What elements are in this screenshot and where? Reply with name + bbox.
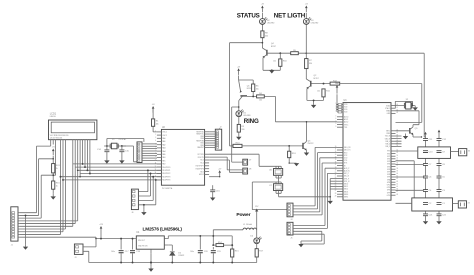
wire J3 to rails bbox=[83, 239, 96, 263]
svg-text:330: 330 bbox=[265, 35, 268, 37]
svg-text:RD6/PSP6: RD6/PSP6 bbox=[196, 168, 204, 170]
svg-text:MIC_P: MIC_P bbox=[344, 173, 349, 175]
svg-text:KBC3: KBC3 bbox=[344, 191, 348, 193]
ground below C15 bbox=[119, 160, 124, 163]
wire RV1 chain bbox=[52, 143, 54, 194]
wire J1 pin2 riser to VDD bbox=[20, 158, 54, 215]
wire Q1 emitter top bbox=[239, 76, 254, 85]
svg-text:SIM_C: SIM_C bbox=[385, 146, 391, 148]
wire long vertical net bbox=[230, 43, 263, 146]
wire U3 L-drop to box F bbox=[396, 161, 415, 198]
inductor L1 bbox=[242, 224, 257, 230]
capacitor C19 bbox=[211, 247, 222, 263]
wire box F to crystal Y3 bbox=[453, 203, 459, 205]
svg-text:NETL: NETL bbox=[386, 131, 390, 133]
wire U7 bottom rail bbox=[276, 191, 330, 197]
resistor R8 bbox=[261, 31, 269, 38]
wire J1 ground riser bbox=[25, 214, 27, 244]
svg-text:MIC_N: MIC_N bbox=[344, 176, 350, 178]
svg-text:RC5: RC5 bbox=[200, 160, 203, 162]
resistor R6 bbox=[252, 84, 260, 92]
wire regulator gnd pin bbox=[150, 253, 152, 262]
wire OSC2 link bbox=[122, 146, 137, 162]
svg-text:RING: RING bbox=[244, 118, 259, 125]
svg-text:GND FB ON: GND FB ON bbox=[138, 245, 148, 247]
capacitor C7 bbox=[423, 164, 432, 167]
svg-text:RA0: RA0 bbox=[162, 137, 165, 140]
wire Q3 emitter bbox=[306, 150, 308, 152]
power +5V above D3 bbox=[305, 4, 309, 13]
capacitor C14 bbox=[97, 146, 109, 160]
wire U3 right misc pins bbox=[396, 136, 402, 146]
wire cap column left bbox=[424, 53, 425, 221]
svg-text:KBC2: KBC2 bbox=[344, 189, 348, 191]
wire U2 pins to JP2 bbox=[209, 157, 243, 172]
svg-text:RTS: RTS bbox=[344, 163, 347, 165]
ground below C16 bbox=[210, 198, 215, 201]
svg-text:NET LIGTH: NET LIGTH bbox=[274, 13, 306, 20]
resistor R16 bbox=[52, 181, 61, 189]
power +5V above D2 bbox=[261, 4, 265, 13]
wire J2 to opto U6 rail bbox=[209, 154, 281, 168]
resistor R13 bbox=[233, 143, 242, 148]
svg-text:GND_E: GND_E bbox=[385, 138, 391, 140]
wire D5 to R5 bbox=[238, 117, 240, 125]
ground below J1 bbox=[23, 244, 28, 250]
transistor Q1 bbox=[239, 80, 252, 111]
svg-text:D8: D8 bbox=[249, 168, 251, 170]
svg-text:VVV RRE DDDDDDDD: VVV RRE DDDDDDDD bbox=[50, 135, 69, 137]
wire input rail bbox=[95, 238, 131, 240]
svg-text:SPK_P: SPK_P bbox=[344, 178, 349, 180]
ground below R18 bbox=[294, 163, 299, 166]
svg-text:BC557: BC557 bbox=[271, 46, 276, 48]
GSM module U3 body bbox=[335, 103, 398, 201]
ground below C14 bbox=[104, 160, 109, 163]
capacitor C13 bbox=[423, 151, 433, 154]
svg-text:J4: J4 bbox=[290, 219, 292, 221]
svg-text:RA2: RA2 bbox=[162, 143, 165, 146]
power +5V to U2 pin1 bbox=[152, 104, 156, 119]
capacitor C6 bbox=[423, 176, 432, 179]
crystal Y2 bbox=[459, 149, 470, 156]
wire Q1 base to R4 bbox=[247, 92, 257, 98]
diode D6 bbox=[170, 252, 184, 263]
capacitor C4 bbox=[423, 190, 432, 193]
svg-text:BC557: BC557 bbox=[314, 78, 319, 80]
wire LCD VEE column bbox=[55, 143, 57, 176]
regulator U4 label bbox=[136, 226, 182, 233]
connector J4 body bbox=[287, 203, 293, 221]
resistor R5 bbox=[237, 124, 245, 132]
wire U2 to J2 bbox=[209, 132, 215, 148]
resistor R11 bbox=[317, 89, 330, 97]
wire U3 to row C bbox=[396, 163, 425, 165]
svg-text:KBC0: KBC0 bbox=[344, 184, 348, 186]
svg-text:10k: 10k bbox=[273, 61, 276, 63]
svg-text:13: 13 bbox=[155, 169, 157, 171]
capacitor C18 bbox=[130, 251, 141, 263]
svg-text:KBR1: KBR1 bbox=[344, 197, 348, 199]
resistor R18 bbox=[288, 151, 297, 158]
option jumper box JP2 bbox=[243, 168, 252, 174]
svg-text:LED-RED: LED-RED bbox=[267, 23, 275, 25]
svg-text:LM016L: LM016L bbox=[50, 116, 56, 118]
svg-text:OSC1: OSC1 bbox=[162, 132, 167, 134]
svg-text:1k: 1k bbox=[56, 168, 58, 170]
resistor R4 bbox=[257, 93, 265, 101]
wire R15 to rail bbox=[231, 257, 233, 263]
wire regulator output bbox=[168, 236, 232, 251]
wire LCD data columns bbox=[82, 143, 91, 175]
svg-text:RB0/INT: RB0/INT bbox=[197, 147, 203, 149]
wire D2 chain bbox=[262, 13, 264, 48]
svg-text:RD2/PSP2: RD2/PSP2 bbox=[162, 173, 170, 175]
svg-text:2N2222: 2N2222 bbox=[308, 143, 314, 145]
power +5V above RV1 bbox=[52, 147, 56, 156]
capacitor C1 bbox=[437, 203, 446, 206]
svg-text:SPK_N: SPK_N bbox=[344, 181, 350, 183]
crystal X2 bbox=[110, 138, 126, 149]
svg-text:GPE: GPE bbox=[387, 190, 390, 192]
svg-text:GPF: GPF bbox=[387, 192, 390, 194]
wire R13 to Q3 base bbox=[242, 145, 303, 147]
svg-text:J1: J1 bbox=[11, 245, 13, 247]
svg-text:RC6/TX: RC6/TX bbox=[198, 157, 205, 159]
svg-text:330: 330 bbox=[241, 129, 244, 131]
svg-text:100u: 100u bbox=[190, 251, 194, 253]
LED D5 bbox=[236, 110, 252, 117]
LCD pin stubs bbox=[51, 140, 90, 143]
ground below rail bbox=[148, 262, 153, 272]
svg-text:LED-RED: LED-RED bbox=[243, 115, 251, 117]
ground below left column bbox=[423, 221, 428, 224]
ground left of J5 runs bbox=[298, 244, 303, 247]
ground below R16 bbox=[51, 194, 56, 200]
svg-text:RA5: RA5 bbox=[162, 153, 165, 156]
wire VEE tap bbox=[52, 174, 55, 176]
resistor R17 bbox=[255, 249, 264, 257]
svg-text:GP9: GP9 bbox=[387, 177, 390, 179]
svg-text:GP7: GP7 bbox=[387, 172, 390, 174]
wire cap column right bbox=[438, 132, 440, 221]
RING label bbox=[244, 118, 259, 125]
resistor R15 bbox=[231, 249, 240, 257]
wire input cap drops bbox=[120, 238, 133, 250]
svg-text:RD3/PSP3: RD3/PSP3 bbox=[162, 176, 170, 178]
wire U3 to row D bbox=[396, 176, 425, 178]
svg-text:L1 100uH: L1 100uH bbox=[243, 224, 253, 226]
resistor R19 bbox=[152, 119, 160, 126]
svg-text:D7: D7 bbox=[249, 159, 251, 161]
capacitor C8 bbox=[437, 164, 446, 167]
svg-text:10k: 10k bbox=[156, 123, 159, 125]
svg-text:DBG_TX: DBG_TX bbox=[344, 150, 351, 152]
svg-text:GP1: GP1 bbox=[387, 156, 390, 158]
svg-text:MCLR: MCLR bbox=[199, 174, 205, 176]
LED D3 bbox=[303, 17, 319, 24]
connector J1 body bbox=[11, 207, 20, 247]
wire J5 runs bbox=[293, 168, 337, 244]
svg-text:GP8: GP8 bbox=[387, 174, 390, 176]
wire U2 pin to power arrow bbox=[209, 168, 222, 177]
wire R18 drop bbox=[289, 146, 297, 164]
LED D4 bbox=[250, 230, 261, 249]
svg-text:100u: 100u bbox=[111, 251, 115, 253]
opto-isolator U7 body bbox=[269, 184, 283, 191]
wire box B to crystal Y2 bbox=[451, 151, 459, 153]
ground below J6 bbox=[141, 210, 146, 216]
svg-text:GPB: GPB bbox=[387, 182, 390, 184]
wire U3 to row B bbox=[396, 150, 418, 152]
svg-text:RE1: RE1 bbox=[162, 160, 165, 162]
svg-text:15: 15 bbox=[155, 175, 157, 177]
resistor R12 bbox=[330, 80, 340, 85]
transistor Q3 bbox=[303, 140, 313, 150]
svg-text:GP3: GP3 bbox=[387, 161, 390, 163]
svg-text:J5: J5 bbox=[290, 238, 292, 240]
capacitor C20 bbox=[190, 251, 208, 263]
wire U3 to row F bbox=[396, 202, 412, 204]
ground below Q3 bbox=[304, 153, 309, 156]
wire U3 ground ladder bbox=[329, 179, 337, 201]
svg-text:10: 10 bbox=[155, 159, 157, 161]
svg-text:DBG_RX: DBG_RX bbox=[344, 147, 351, 149]
regulator U4 body bbox=[131, 236, 168, 253]
wire J6 ground stub bbox=[138, 204, 144, 210]
capacitor C16 bbox=[210, 190, 220, 198]
wire J1 pin3 riser to VEE bbox=[20, 175, 54, 218]
microcontroller U2 label bbox=[162, 127, 173, 190]
crystal X1 bbox=[404, 99, 412, 109]
power VBAT to U3 pins bbox=[335, 82, 342, 113]
capacitor C11 bbox=[423, 139, 433, 142]
svg-text:RC4: RC4 bbox=[200, 163, 203, 165]
ground right of X1 bbox=[413, 107, 418, 110]
svg-text:Power: Power bbox=[236, 212, 250, 218]
power +5V above Q1 bbox=[237, 66, 241, 75]
svg-text:RD1/PSP1: RD1/PSP1 bbox=[162, 170, 170, 172]
power input arrow bbox=[255, 206, 259, 226]
wire row F box bbox=[412, 198, 453, 211]
connector J2 body bbox=[215, 127, 221, 150]
ground below Q4 bbox=[269, 70, 274, 73]
capacitor C9 bbox=[437, 151, 446, 154]
connector J3 body bbox=[74, 244, 83, 259]
wire bus to U2 bbox=[61, 164, 162, 180]
svg-text:RD5: RD5 bbox=[200, 171, 203, 173]
wire R17 to rail bbox=[256, 257, 258, 263]
connector J7 body bbox=[137, 142, 142, 163]
wire R19 to U2 pin1 bbox=[153, 126, 157, 132]
svg-text:LM2576 (LM2596L): LM2576 (LM2596L) bbox=[143, 226, 183, 231]
LCD module LCD1 label bbox=[50, 113, 57, 119]
capacitor C12 bbox=[437, 139, 447, 142]
svg-text:VIN OUT: VIN OUT bbox=[138, 240, 145, 242]
wire D3 chain bbox=[305, 13, 307, 79]
svg-text:1k: 1k bbox=[56, 185, 58, 187]
svg-text:14: 14 bbox=[155, 172, 157, 174]
svg-text:12: 12 bbox=[155, 166, 157, 168]
ground below R5 bbox=[236, 137, 241, 140]
capacitor C15 bbox=[119, 146, 129, 160]
svg-text:RD4/PSP4: RD4/PSP4 bbox=[162, 180, 170, 182]
svg-text:10k: 10k bbox=[259, 99, 262, 101]
svg-text:RA1: RA1 bbox=[162, 140, 165, 143]
svg-text:X3: X3 bbox=[468, 150, 470, 152]
wire J4 to U3 risers bbox=[293, 147, 337, 215]
wire R9 to loop bbox=[298, 52, 424, 54]
wire R5 to ground bbox=[238, 132, 240, 137]
svg-text:10k: 10k bbox=[317, 91, 320, 93]
wire J6 risers to bus bbox=[138, 169, 156, 204]
wire U2 bottom pin to C16 bbox=[212, 185, 214, 190]
capacitor C21 bbox=[423, 214, 433, 217]
svg-text:RD7/PSP7: RD7/PSP7 bbox=[196, 166, 204, 168]
svg-text:CTS: CTS bbox=[344, 160, 347, 162]
wire R10 top bbox=[279, 53, 281, 59]
ground below Q2 bbox=[311, 105, 316, 108]
crystal Y3 bbox=[458, 201, 469, 208]
wire U6 to U7 rail bbox=[252, 176, 287, 210]
svg-text:GP5: GP5 bbox=[387, 166, 390, 168]
svg-text:10k: 10k bbox=[256, 88, 259, 90]
wire crystal rail bbox=[104, 145, 126, 147]
svg-text:RE0: RE0 bbox=[162, 157, 165, 159]
microcontroller U2 body bbox=[155, 129, 209, 185]
power arrow above left column bbox=[424, 132, 427, 137]
svg-text:16: 16 bbox=[155, 179, 157, 181]
svg-text:11: 11 bbox=[155, 163, 157, 165]
LCD module LCD1 body bbox=[49, 120, 97, 140]
resistor R9 bbox=[291, 50, 299, 55]
ground below right column bbox=[436, 221, 441, 224]
transistor Q4 bbox=[262, 43, 276, 70]
svg-text:STATUS: STATUS bbox=[237, 13, 260, 20]
wire bottom rail bbox=[89, 262, 257, 264]
wire net to R13 bbox=[230, 145, 234, 147]
STATUS label bbox=[237, 13, 260, 20]
capacitor C3 bbox=[437, 190, 446, 193]
wire Q1 collector tap to JP1 bbox=[232, 106, 243, 162]
svg-text:RF1: RF1 bbox=[387, 151, 390, 153]
LED D2 bbox=[260, 17, 276, 24]
svg-text:LED-RED: LED-RED bbox=[311, 23, 319, 25]
svg-text:KBR0: KBR0 bbox=[344, 194, 348, 196]
svg-text:RC7/RX: RC7/RX bbox=[198, 154, 205, 156]
wire U3 to row E bbox=[396, 189, 425, 191]
capacitor C17 bbox=[111, 251, 129, 263]
power arrow above input bbox=[99, 224, 104, 238]
wire J1 nested fan bbox=[20, 143, 81, 235]
svg-text:GP4: GP4 bbox=[387, 164, 390, 166]
wire J1 pin10 to supply rail bbox=[20, 237, 96, 238]
svg-text:VBAT: VBAT bbox=[335, 82, 339, 85]
capacitor C22 bbox=[437, 214, 447, 217]
wire R4 to drop bbox=[264, 96, 306, 121]
wire output node drops bbox=[199, 235, 232, 250]
svg-text:RF2: RF2 bbox=[387, 153, 390, 155]
opto-isolator U6 body bbox=[269, 169, 283, 176]
svg-text:OSC2: OSC2 bbox=[162, 135, 167, 137]
wire Q3 collector to U3 bbox=[306, 121, 337, 141]
wire OSC1 to U2 bbox=[107, 139, 144, 147]
wire Q2 base row bbox=[312, 83, 331, 85]
svg-text:RD0/PSP0: RD0/PSP0 bbox=[162, 167, 170, 169]
wire U3 to crystal X1 bbox=[395, 101, 415, 108]
power arrow above right column bbox=[438, 130, 441, 133]
svg-text:GP2: GP2 bbox=[387, 159, 390, 161]
wire Q2 emitter rail bbox=[307, 97, 324, 105]
svg-text:RA3: RA3 bbox=[162, 147, 165, 150]
capacitor C2 bbox=[423, 203, 432, 206]
svg-text:J6: J6 bbox=[131, 212, 133, 214]
svg-text:KBC1: KBC1 bbox=[344, 186, 348, 188]
svg-text:SIM_D: SIM_D bbox=[385, 144, 391, 146]
resistor RV1 bbox=[52, 164, 61, 173]
svg-text:J3: J3 bbox=[74, 257, 76, 259]
svg-text:X4: X4 bbox=[468, 203, 470, 205]
wire row B box bbox=[418, 147, 451, 159]
svg-text:330: 330 bbox=[309, 63, 312, 65]
wire Q4 emitter rail bbox=[263, 66, 280, 71]
ground below Q5 bbox=[403, 134, 422, 140]
connector J5 body bbox=[287, 222, 293, 239]
capacitor C5 bbox=[437, 176, 446, 179]
transistor Q5 bbox=[396, 125, 422, 137]
wire J7 to U2 bbox=[142, 144, 157, 161]
resistor R14 bbox=[213, 242, 233, 247]
wire R12 to inner loop bbox=[340, 84, 422, 123]
GSM module U3 label bbox=[344, 100, 348, 102]
ground right of U7 bbox=[328, 201, 333, 204]
svg-text:VDD_E: VDD_E bbox=[385, 136, 390, 138]
NET LIGTH label bbox=[274, 13, 306, 20]
Power label bbox=[236, 212, 250, 218]
wire LCD VSS to J1 bbox=[20, 143, 51, 213]
resistor R10 bbox=[273, 59, 287, 66]
svg-text:PIC16F877A: PIC16F877A bbox=[162, 187, 173, 190]
wire Q4 base row bbox=[268, 52, 291, 54]
transistor Q2 bbox=[306, 75, 318, 100]
svg-text:GP6: GP6 bbox=[387, 169, 390, 171]
option jumper box JP1 bbox=[243, 159, 252, 165]
svg-text:RA4: RA4 bbox=[162, 150, 165, 153]
wire crystal loop bbox=[396, 111, 420, 125]
svg-text:RE2: RE2 bbox=[162, 164, 165, 166]
resistor R7 bbox=[305, 59, 313, 69]
svg-text:1N5822: 1N5822 bbox=[178, 255, 184, 257]
svg-text:123 456 789012345: 123 456 789012345 bbox=[50, 137, 63, 139]
wire L1 left to node bbox=[213, 230, 242, 245]
connector J6 body bbox=[131, 189, 138, 214]
